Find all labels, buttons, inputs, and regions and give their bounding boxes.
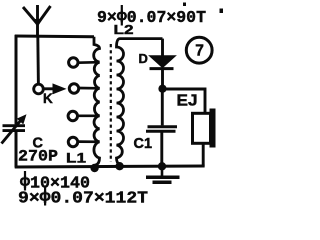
speck right edge — [220, 9, 224, 14]
tap terminal 4 — [68, 137, 77, 146]
wire earphone to rail — [202, 143, 205, 166]
antenna — [23, 5, 51, 36]
wire node to earphone branch — [163, 89, 206, 113]
svg-text:D: D — [139, 51, 148, 66]
coil L1 — [94, 37, 100, 168]
tap terminal 1 — [69, 58, 78, 67]
svg-text:7: 7 — [195, 43, 204, 60]
svg-text:9×Φ0.07×90T: 9×Φ0.07×90T — [97, 9, 206, 28]
wire tap 4 — [78, 140, 100, 143]
wire tap 3 — [78, 114, 100, 117]
coil L2 — [117, 39, 163, 166]
wire C1 to rail — [160, 131, 163, 166]
ground — [146, 167, 180, 183]
wire L2 top to diode — [161, 39, 164, 56]
svg-text:EJ: EJ — [177, 93, 198, 110]
circled figure number 7 — [186, 37, 212, 63]
variable capacitor C — [2, 114, 27, 143]
wire node to C1 — [161, 89, 164, 126]
junction dot L1-rail — [90, 164, 98, 172]
switch K — [34, 83, 67, 94]
svg-text:C1: C1 — [134, 136, 153, 152]
wire bottom rail — [15, 166, 205, 167]
svg-text:K: K — [43, 91, 53, 106]
earphone EJ — [193, 109, 216, 148]
wire tap 2 — [79, 87, 100, 90]
wire top of tank loop — [15, 35, 94, 39]
tap terminal 2 — [69, 84, 78, 93]
junction dot ground node — [158, 162, 166, 170]
diode D — [150, 57, 174, 69]
wire diode to node — [161, 69, 164, 89]
wire tap 1 — [78, 61, 100, 64]
phi stem of bottom value — [44, 186, 46, 206]
svg-text:270P: 270P — [18, 148, 58, 166]
phi stem of top value — [121, 5, 123, 26]
wire left edge lower — [15, 132, 18, 168]
transformer core (dashed) — [110, 44, 112, 162]
phi stem of rod value — [24, 171, 26, 191]
speck above 9 — [183, 3, 186, 7]
junction dot L2-rail — [115, 162, 123, 170]
wire left edge upper — [15, 35, 18, 124]
junction dot detector node — [158, 85, 166, 93]
svg-text:9×Φ0.07×112T: 9×Φ0.07×112T — [18, 190, 148, 207]
wire antenna to switch arm — [36, 36, 40, 84]
capacitor C1 — [146, 127, 177, 131]
tap terminal 3 — [68, 111, 77, 120]
svg-text:L1: L1 — [66, 151, 87, 166]
